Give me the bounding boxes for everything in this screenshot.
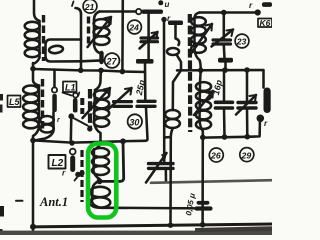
wire y61 to circle 27 [81,60,105,61]
L2 tick [75,178,78,181]
grey line [151,180,272,183]
rail y70 right [177,70,264,88]
link coil twist [49,45,64,54]
S-curve wire [176,25,180,45]
L1 switch bar [73,98,78,112]
node dot r1 [161,17,166,22]
svg-text:30: 30 [129,117,139,127]
pole dot right [257,115,265,123]
wire bottom y208 [110,207,202,210]
link coil right vertical [80,14,83,70]
S exit [177,55,182,71]
wire y141 [33,140,123,142]
L5 sec loop1 [40,116,54,124]
circle 29 [240,148,254,162]
pill contact right [264,88,271,114]
L23 loop2 [191,26,206,35]
node dot y137 x224 [222,134,228,140]
svg-text:Ant.1: Ant.1 [39,195,68,209]
trimmer C6 arrow [236,95,256,115]
L1 box [63,82,77,93]
circle 26 [209,148,223,162]
terminal bar under coil H [99,53,103,62]
svg-text:L2: L2 [52,158,64,169]
svg-text:26: 26 [210,151,221,161]
L1 loop2 [94,100,109,109]
trimmer C2 plates [213,40,231,44]
L2 switch bar [70,156,75,173]
node dot y137 x203 [200,135,206,141]
trimmer C3 arrow [108,88,132,110]
coil H spine [94,20,100,53]
dashed col x82 [80,98,84,114]
vertical x123 down to tap [99,141,124,181]
wire left main vertical upper [33,63,39,86]
lower coil loop2 [196,92,211,101]
node dot x70 [68,113,74,119]
node dot bus x203 [200,222,206,228]
big trimmer C7 arrow [146,153,167,183]
top right rail [200,11,257,14]
L5 loop 1 [23,86,38,94]
green highlight rect [88,144,116,218]
L2 switch dot2 [75,172,81,178]
wire hook above link [76,8,82,14]
stem x145 bar to plates [144,64,147,100]
trimmer C6 stem [246,70,249,101]
L2 switch dot on wire [69,140,74,145]
arrow L23 [190,24,212,55]
green loop3 [92,166,109,175]
wire left main vertical lower [32,140,35,233]
lower coil loop5 [196,120,211,129]
node dot u [158,0,163,5]
L1 coil entry [95,71,101,91]
T-bar contact [168,21,183,26]
L5 loop 2 [23,94,38,102]
lower coil loop1 [196,82,211,91]
lower coil loop3 [196,101,211,110]
coil H entry [94,12,100,21]
wire y137 right [203,122,260,138]
lever diagonal [72,117,88,126]
artifacts left edge [0,94,3,101]
svg-text:L5: L5 [9,97,20,107]
node dot dashed [79,170,84,175]
node dot rail x247 [244,67,250,73]
green loop2 [92,157,109,166]
cap 25p plates [137,101,155,106]
trimmer C6 stem bottom [246,108,249,137]
arrow lower coil [194,91,213,115]
terminal bar S5 [136,59,154,64]
big trimmer C7 plates [149,164,174,169]
wire rail y70 [33,69,145,72]
cap 16p stem bottom [223,108,226,137]
switch contact bar S1 [142,10,164,14]
L1 switch circle [73,93,78,98]
L1 coil arrow [83,88,111,118]
green coil entry [96,142,101,149]
L1 loop1 [94,90,109,99]
svg-text:K6: K6 [260,18,271,28]
cap 16p stem [223,70,226,100]
vertical x203 down [201,137,204,225]
inductor coil A spine [33,21,40,64]
bottom bus [33,224,272,227]
L1 loop3 [94,109,109,118]
L1 pointer [63,93,72,96]
circle 30 [128,114,142,128]
dashed core D3 [41,79,44,130]
svg-text:21: 21 [84,2,95,12]
coil A loop 3 [25,40,40,48]
trimmer C2 stem bottom + bar [223,46,226,59]
link to x171 wire [164,136,170,139]
green loop1 [92,148,109,157]
circle 23 [235,34,249,48]
trimmer C1 stem top [147,14,150,37]
arrow through coil H [88,17,111,47]
wire top rail y11.5 [100,10,137,13]
coil H loop1 [94,19,110,28]
node dot bar2 [87,126,92,131]
circle 27 [105,53,120,68]
L5 secondary coil spine [35,112,54,140]
minus sign [16,200,23,202]
green coil tap dot [97,178,103,184]
trimmer C2 arrow [212,30,234,47]
green coil spine upper [94,149,100,179]
S loop ellipse [167,48,179,55]
node dot rail left [30,66,36,72]
circle 24 [128,20,142,34]
trimmer C6 plates [238,103,256,109]
node dot x171 bus [168,223,173,228]
dashed D6 core [188,14,193,132]
L5 loop 3 [23,103,38,111]
L5 sec loop2 [40,125,54,133]
big trimmer C7 bottom stem [165,168,168,182]
trimmer C2 stem [223,13,226,39]
coil A loop 4 [25,49,40,57]
node dot trimmer23 [221,10,227,16]
node dot x123 y141 [120,138,126,144]
green coil spine lower [92,181,110,208]
L5 loop 5 [23,120,38,128]
L5 switch bar [52,94,57,112]
dashed core D2 [87,17,90,46]
link coil outer [46,40,82,62]
coil A loop 2 [25,31,40,39]
trimmer C1 stem bottom [147,43,150,59]
L5 switch drop [53,70,56,88]
svg-text:29: 29 [241,150,252,160]
t3 left loop1 [165,110,180,119]
switch open circle [136,9,141,14]
svg-text:L1: L1 [65,82,76,92]
L23 loop3 [191,35,206,44]
node dot rail x200 [198,68,204,74]
lower coil loop4 [196,111,211,120]
t3 left loop2 [165,119,180,128]
L23 loop4 [191,44,206,53]
green loop4 [90,187,110,197]
lower right coil spine [200,70,203,135]
dashed D5 [80,150,83,202]
upper right coil L23 entry [195,13,200,18]
coil H loop3 [94,36,110,45]
svg-text:u: u [165,0,170,9]
vertical x70 [70,116,73,142]
coil H loop2 [94,28,110,37]
cap 25p stem bottom [123,108,148,141]
L2 switch circle [70,149,76,155]
cap 16p plates [216,102,233,108]
node dot rail x101 [98,68,104,74]
tick r small [78,93,79,96]
node dot K6 pole [255,9,261,15]
L23 spine [195,18,201,71]
mark a [72,2,74,7]
trimmer C1 plates [141,38,158,42]
trimmer C1 arrow [140,32,158,49]
svg-text:24: 24 [128,23,139,33]
vertical x122.8 top [121,0,124,72]
L1 coil spine [94,90,101,142]
L1 loop4 [94,118,109,127]
trimmer C3 (30) plates [114,102,132,107]
L5 loop 4 [23,111,38,119]
green loop5 [90,197,111,207]
L5 box [8,96,21,108]
transformer3 left vertical [171,70,182,225]
wire top-left entry hook [34,0,40,21]
svg-text:27: 27 [106,56,118,66]
svg-text:23: 23 [236,37,247,47]
r-dot vertical x164 [163,22,166,162]
cap 0.05 plates [199,201,208,205]
node dot rail x122 [120,69,126,75]
dashed D4 [88,89,92,127]
coil A loop 1 [25,22,40,30]
L23 loop1 [191,17,206,26]
L5 switch circle [52,87,57,92]
L2 box [49,155,66,169]
circle 21 [83,0,97,13]
node dot y140 x33 [30,138,36,144]
K6 contact bar [262,2,272,7]
dashed core D1 [42,15,45,61]
node dot rail x80 [78,68,84,74]
L5 coil spine [33,86,39,141]
node dot bus x33 [30,224,36,230]
node dot rail x224 [222,67,228,73]
bottom grey band [0,231,272,235]
K6 box [258,19,272,28]
node dot y137 x247 [245,134,251,140]
